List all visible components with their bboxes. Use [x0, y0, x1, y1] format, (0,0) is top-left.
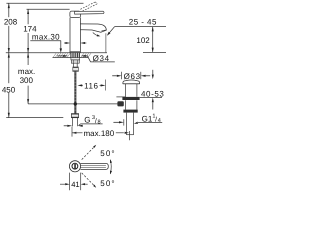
- svg-text:208: 208: [4, 17, 18, 26]
- flexible hose tails: [72, 118, 74, 127]
- G1 1/4 label underline and leader arrow: [138, 122, 162, 124]
- pop-up actuating rod horizontal: [28, 103, 118, 105]
- counter top surface line: [6, 52, 107, 54]
- max.180 right extension tick: [128, 131, 130, 140]
- horseshoe washer: [71, 58, 80, 60]
- hose coupling nut: [71, 114, 78, 118]
- dimension 40-53 bottom arrow: [152, 98, 154, 103]
- water flow curved arrow: [93, 33, 99, 36]
- dimension 174 vertical line: [27, 9, 29, 24]
- hose connector block: [73, 67, 79, 71]
- svg-text:41: 41: [71, 180, 79, 189]
- rod junction dot: [74, 102, 77, 105]
- dimension 40-53 top arrow: [152, 70, 154, 75]
- plan view body circle: [69, 161, 80, 172]
- dia 34 arrows at base: [63, 55, 68, 57]
- swivel arc with arrowheads: [109, 160, 112, 174]
- svg-text:max.180: max.180: [84, 129, 115, 138]
- dimension 450 vertical line: [8, 53, 10, 83]
- max.180 left extension tick: [71, 127, 73, 137]
- G1 1/4 tailpipe dimension arrow and tick: [123, 119, 125, 125]
- dimension max.300 vertical line: [27, 53, 29, 65]
- svg-text:max.: max.: [18, 67, 35, 76]
- svg-text:50°: 50°: [100, 149, 115, 158]
- plan view cartridge inner circle: [72, 163, 78, 169]
- counter hatching left of faucet: [53, 53, 56, 57]
- drain flange dome: [123, 80, 140, 84]
- svg-text:max.30: max.30: [32, 33, 60, 42]
- counter hatching right of faucet: [81, 53, 84, 57]
- threaded pull rod: [74, 71, 76, 113]
- svg-text:G: G: [84, 116, 90, 125]
- max.180 dimension arrows and label: [72, 132, 76, 134]
- hose connector pipes: [72, 63, 74, 67]
- drain body upper: [125, 84, 127, 97]
- max.30 leader underline and arrow: [30, 41, 61, 49]
- G3/8 connection arrows: [67, 125, 72, 127]
- drain tailpipe: [125, 113, 127, 135]
- svg-text:8: 8: [98, 119, 101, 125]
- svg-text:450: 450: [2, 85, 16, 94]
- bottom reference line: [6, 117, 63, 119]
- lever handle horizontal: [75, 11, 104, 14]
- 25-45 underline reference line: [115, 26, 166, 28]
- plan view lever slot: [74, 164, 76, 169]
- dimension 41 extension lines: [69, 173, 71, 191]
- aerator face line: [101, 30, 106, 31]
- svg-text:116: 116: [84, 82, 98, 91]
- swivel range dashed line upper 50deg: [82, 146, 96, 160]
- counter bottom line: [53, 57, 89, 59]
- faucet base ring: [70, 51, 81, 53]
- drain body lower: [125, 100, 127, 109]
- drain seal ring dark: [122, 97, 139, 100]
- G3/8 label underline and leader: [79, 124, 103, 126]
- dimension 116 line and arrows: [77, 84, 82, 86]
- dia 34 label leader: [87, 56, 114, 62]
- dimension 102 vertical line: [152, 27, 154, 53]
- mounting nut: [71, 60, 79, 63]
- svg-text:50°: 50°: [100, 179, 115, 188]
- faucet handle cap: [70, 11, 81, 17]
- svg-text:Ø63: Ø63: [124, 72, 141, 81]
- svg-text:25 - 45: 25 - 45: [129, 17, 157, 26]
- svg-text:4: 4: [158, 118, 161, 124]
- basin lower reference line right: [140, 97, 162, 99]
- lever handle raised dashed position: [80, 2, 95, 9]
- reference line top of body (174 datum): [27, 8, 70, 10]
- dia 34 arrows at body: [65, 42, 70, 44]
- mounting shank through counter: [71, 53, 80, 58]
- counter rim line right (basin rim): [143, 51, 166, 53]
- drain lock nut dark: [123, 110, 137, 113]
- dimension 208 vertical line: [8, 3, 10, 17]
- leader arrow to spout outlet: [108, 27, 115, 35]
- svg-text:300: 300: [20, 76, 34, 85]
- spout outline: [80, 24, 106, 32]
- swivel range dashed line lower 50deg: [82, 173, 96, 187]
- water stream extension line: [105, 33, 107, 52]
- svg-text:G1: G1: [142, 114, 153, 123]
- reference line top of raised lever (208 datum): [6, 2, 83, 4]
- 116 right extension line: [105, 80, 107, 91]
- dia 63 dimension: [121, 72, 123, 79]
- plan view lever bar: [81, 163, 109, 169]
- svg-text:102: 102: [136, 36, 150, 45]
- svg-text:40-53: 40-53: [141, 90, 164, 99]
- rod ball joint on drain: [117, 101, 123, 106]
- faucet body cylinder: [69, 18, 71, 53]
- basin surface line left: [116, 96, 125, 98]
- svg-text:Ø34: Ø34: [93, 54, 110, 63]
- dimension 41 arrows and label: [65, 183, 69, 185]
